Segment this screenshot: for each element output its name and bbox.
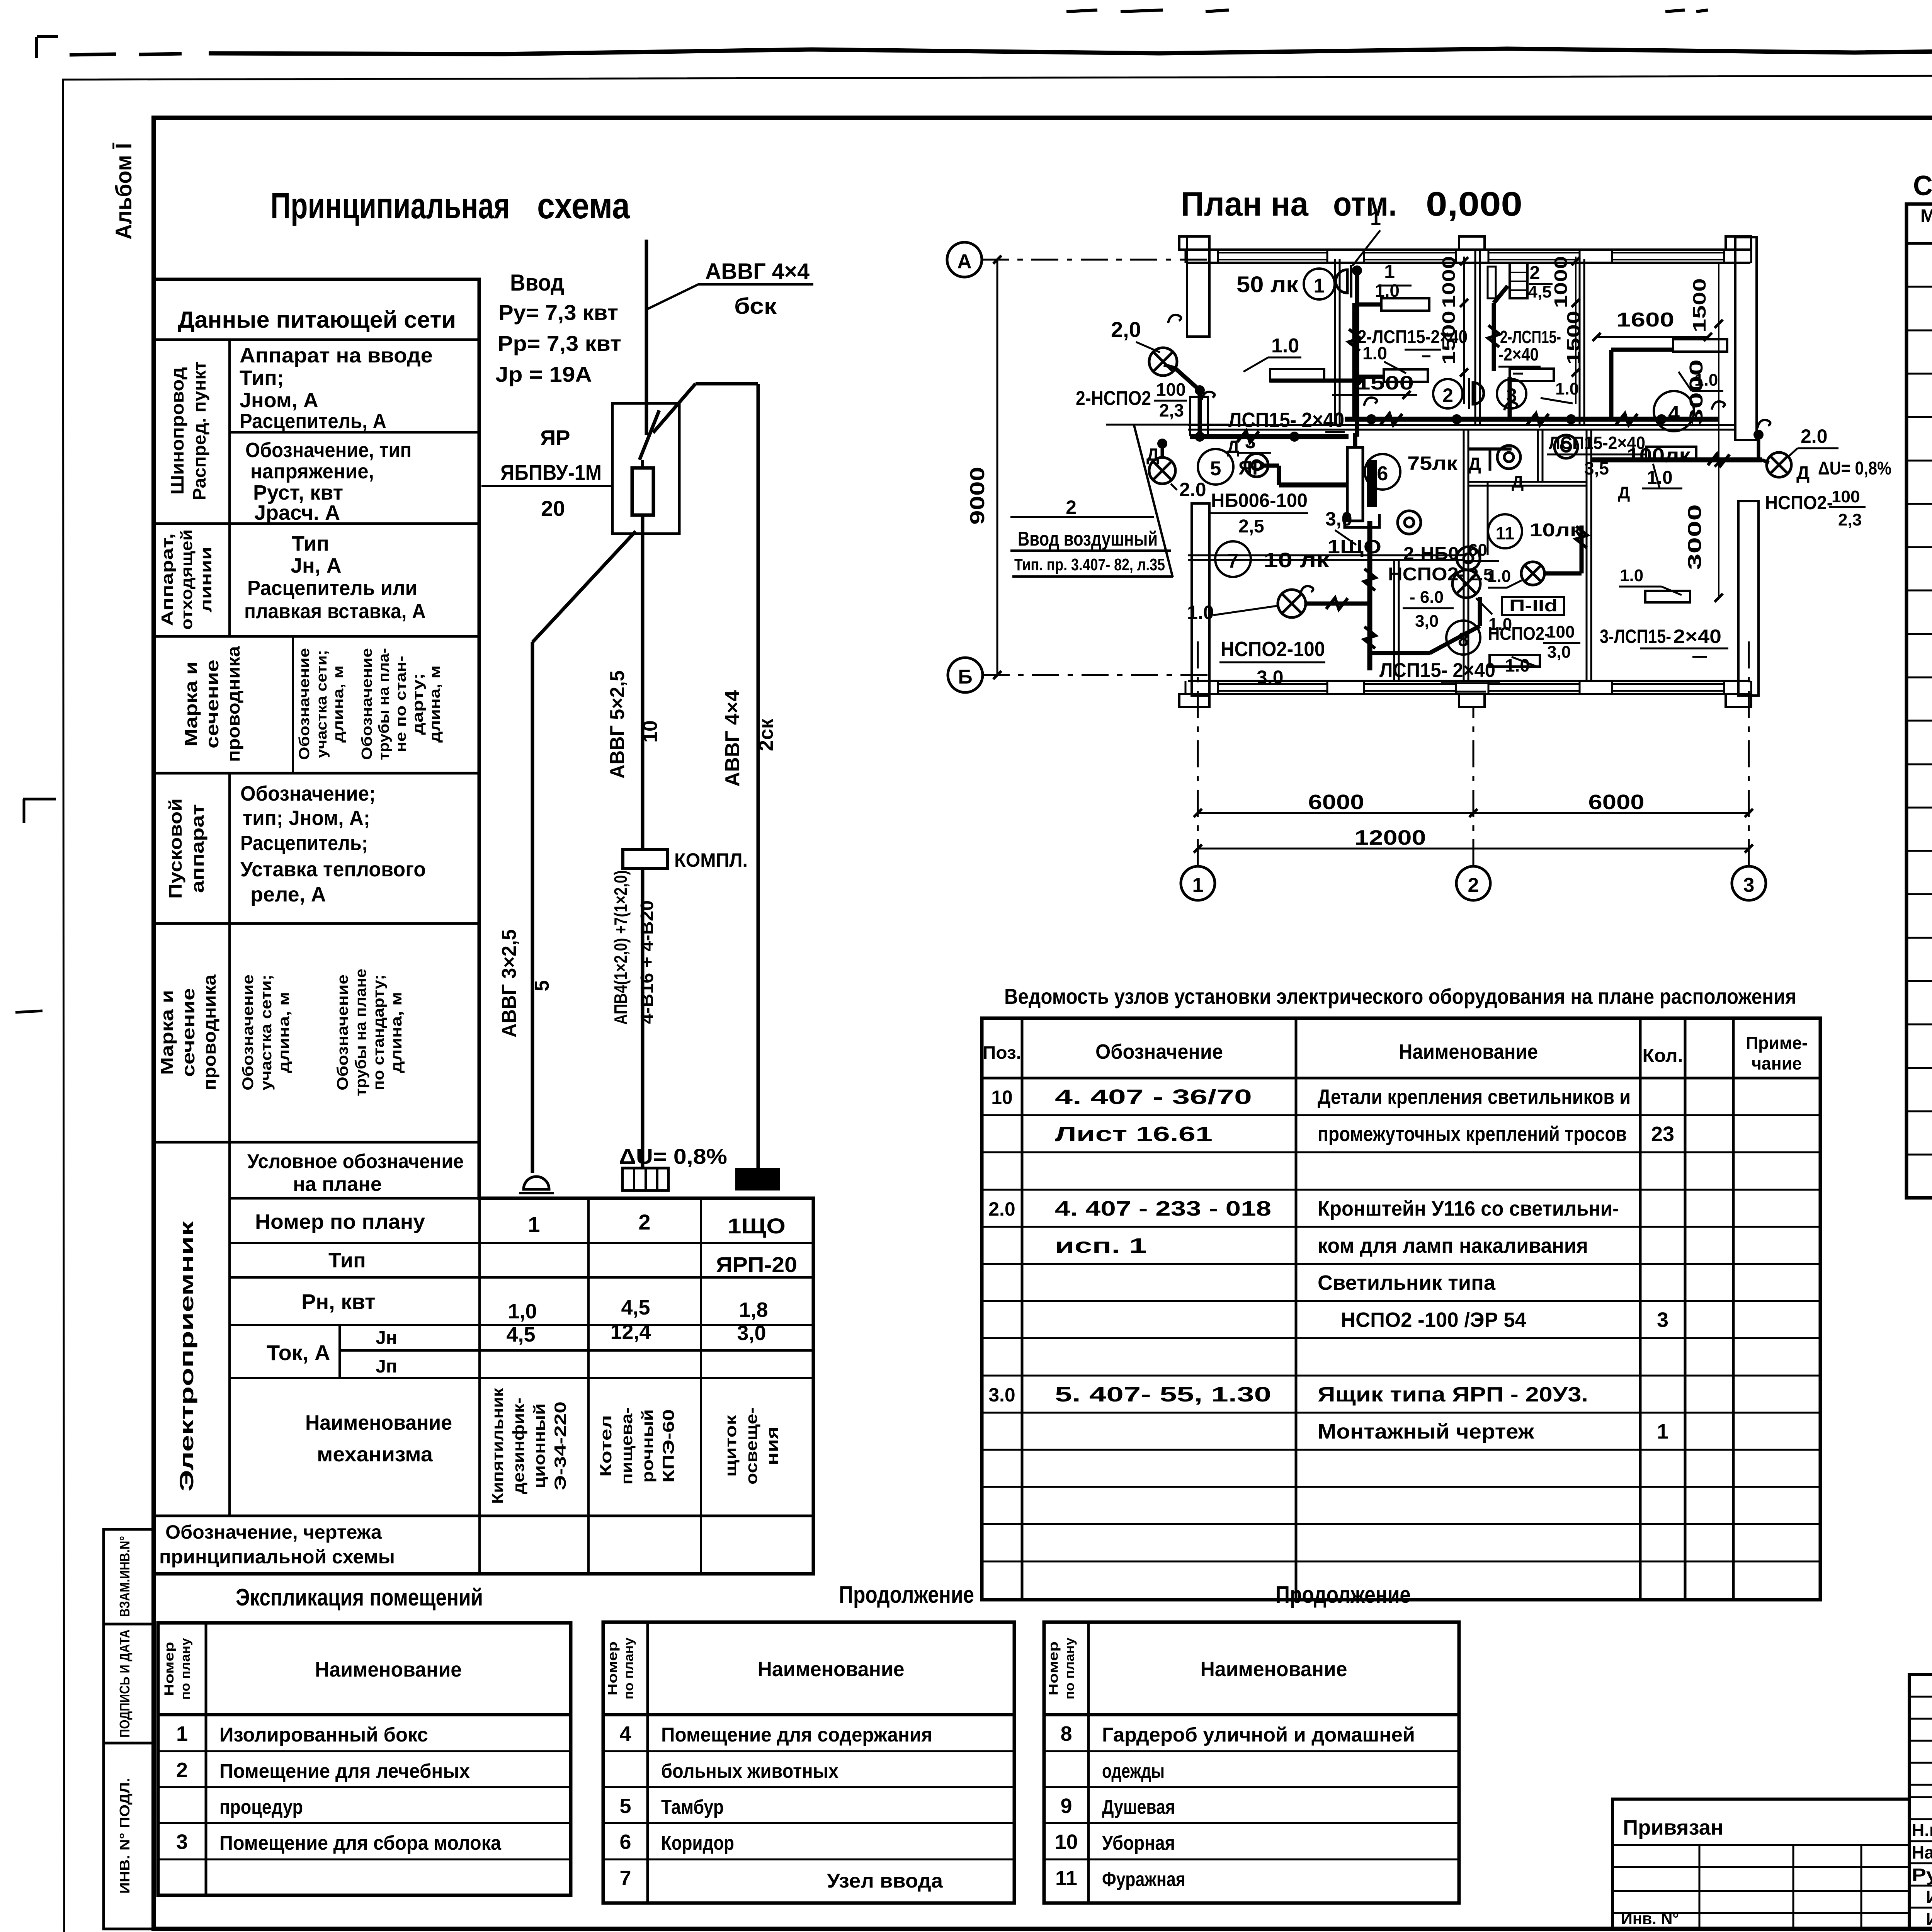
svg-text:Ток, А: Ток, А [267, 1340, 330, 1365]
svg-text:4-В16 + 4-В20: 4-В16 + 4-В20 [637, 900, 657, 1024]
svg-text:20: 20 [541, 496, 565, 520]
svg-text:АВВГ 3×2,5: АВВГ 3×2,5 [498, 929, 520, 1037]
svg-text:Рн, квт: Рн, квт [301, 1289, 375, 1314]
svg-text:Приме-: Приме- [1746, 1033, 1808, 1053]
svg-text:АПВ4(1×2,0) +7(1×2,0): АПВ4(1×2,0) +7(1×2,0) [611, 870, 631, 1025]
svg-text:1500: 1500 [1439, 311, 1459, 365]
svg-text:1ЩО: 1ЩО [728, 1214, 786, 1238]
svg-text:6000: 6000 [1588, 791, 1645, 814]
svg-text:сечение: сечение [202, 660, 222, 748]
svg-text:Наименование: Наименование [1399, 1040, 1538, 1063]
svg-text:НСПО2-: НСПО2- [1765, 492, 1833, 514]
svg-text:2,3: 2,3 [1838, 510, 1862, 529]
svg-text:2.0: 2.0 [988, 1198, 1015, 1220]
svg-text:1.0: 1.0 [1647, 468, 1673, 488]
svg-text:Руст, квт: Руст, квт [253, 481, 343, 504]
svg-text:10 лк: 10 лк [1264, 549, 1330, 572]
svg-text:Јрасч. А: Јрасч. А [254, 501, 340, 524]
svg-text:реле, А: реле, А [250, 883, 326, 906]
svg-text:линии: линии [197, 547, 215, 612]
svg-text:больных животных: больных животных [661, 1760, 838, 1782]
svg-text:6: 6 [1377, 463, 1388, 485]
svg-text:100: 100 [1546, 622, 1575, 641]
svg-text:1000: 1000 [1551, 256, 1571, 308]
svg-text:Спецификация на силовое эле: Спецификация на силовое электрооборудова… [1913, 170, 1932, 201]
svg-text:Уборная: Уборная [1102, 1832, 1175, 1854]
svg-text:1500: 1500 [1563, 311, 1583, 365]
svg-text:Аппарат,: Аппарат, [158, 533, 176, 626]
svg-text:12000: 12000 [1355, 826, 1426, 849]
svg-text:Номер по плану: Номер по плану [255, 1210, 425, 1233]
svg-text:тип; Јном, А;: тип; Јном, А; [243, 806, 370, 830]
svg-text:Номер: Номер [1046, 1641, 1061, 1696]
svg-text:участка сети;: участка сети; [258, 975, 275, 1090]
svg-text:Электроприемник: Электроприемник [176, 1220, 197, 1492]
svg-text:Наименование: Наименование [315, 1658, 462, 1681]
svg-text:Расцепитель;: Расцепитель; [240, 832, 368, 855]
svg-text:не по стан-: не по стан- [393, 656, 409, 752]
svg-text:Продолжение: Продолжение [839, 1582, 974, 1608]
svg-text:2: 2 [176, 1759, 188, 1782]
svg-text:3: 3 [1245, 431, 1256, 452]
svg-text:Јп: Јп [376, 1356, 397, 1377]
svg-text:3: 3 [176, 1830, 188, 1854]
svg-text:5: 5 [619, 1794, 631, 1818]
svg-text:ЛСП15- 2×40: ЛСП15- 2×40 [1228, 408, 1344, 432]
svg-text:Наименование: Наименование [758, 1658, 905, 1681]
svg-text:1: 1 [1192, 874, 1204, 896]
svg-text:АВВГ 4×4: АВВГ 4×4 [705, 259, 810, 284]
svg-text:Узел ввода: Узел ввода [827, 1870, 943, 1892]
svg-text:Светильник типа: Светильник типа [1318, 1271, 1496, 1294]
svg-text:Марка и: Марка и [181, 662, 201, 747]
svg-text:23: 23 [1651, 1122, 1674, 1146]
svg-text:Уставка теплового: Уставка теплового [240, 858, 426, 881]
svg-text:ЯРП-20: ЯРП-20 [716, 1252, 797, 1277]
svg-text:Пусковой: Пусковой [165, 798, 185, 899]
svg-text:2: 2 [1530, 263, 1540, 283]
svg-text:8: 8 [1458, 629, 1469, 650]
svg-text:Ящик типа ЯРП - 20У3.: Ящик типа ЯРП - 20У3. [1318, 1383, 1588, 1406]
svg-text:Н.контр.: Н.контр. [1912, 1820, 1932, 1840]
svg-text:длина, м: длина, м [276, 992, 293, 1073]
svg-text:Инж.: Инж. [1926, 1909, 1932, 1929]
svg-text:2.0: 2.0 [1801, 425, 1828, 447]
svg-text:2,3: 2,3 [1159, 400, 1184, 420]
svg-text:Котел: Котел [597, 1415, 615, 1477]
svg-text:1: 1 [1370, 207, 1381, 229]
svg-text:Экспликация помещений: Экспликация помещений [236, 1584, 483, 1611]
svg-text:4. 407 - 36/70: 4. 407 - 36/70 [1055, 1085, 1252, 1109]
svg-text:по плану: по плану [178, 1638, 193, 1700]
svg-text:1: 1 [176, 1722, 188, 1745]
svg-text:2ск: 2ск [755, 718, 777, 751]
svg-text:ния: ния [763, 1427, 781, 1465]
svg-text:Инж.: Инж. [1926, 1887, 1932, 1907]
svg-text:Расцепитель или: Расцепитель или [247, 577, 417, 600]
svg-text:Марка и: Марка и [157, 990, 177, 1075]
svg-text:НСПО2-100: НСПО2-100 [1221, 638, 1325, 661]
svg-text:НСПО2-: НСПО2- [1488, 624, 1550, 644]
svg-text:ком для ламп накаливания: ком для ламп накаливания [1318, 1234, 1588, 1257]
svg-text:5. 407- 55, 1.30: 5. 407- 55, 1.30 [1055, 1383, 1271, 1406]
svg-text:Расцепитель, А: Расцепитель, А [240, 410, 386, 433]
svg-text:1.0: 1.0 [1375, 281, 1400, 301]
svg-text:Тип. пр. 3.407- 82, л.35: Тип. пр. 3.407- 82, л.35 [1014, 555, 1165, 574]
svg-text:1ЩО: 1ЩО [1327, 536, 1381, 558]
svg-text:План на: План на [1181, 185, 1309, 223]
svg-text:длина, м: длина, м [427, 665, 443, 743]
svg-text:1,8: 1,8 [739, 1298, 768, 1321]
svg-text:4: 4 [619, 1722, 631, 1745]
svg-text:Д: Д [1796, 463, 1810, 483]
svg-text:АВВГ 4×4: АВВГ 4×4 [721, 690, 744, 787]
svg-text:Ввод воздушный: Ввод воздушный [1018, 528, 1158, 550]
svg-text:Э-34-220: Э-34-220 [551, 1401, 569, 1490]
svg-text:Јр = 19А: Јр = 19А [495, 362, 592, 386]
svg-text:4: 4 [1668, 402, 1680, 425]
svg-text:3: 3 [1743, 874, 1755, 896]
svg-text:Душевая: Душевая [1102, 1796, 1175, 1818]
svg-text:Тамбур: Тамбур [661, 1796, 724, 1818]
svg-text:1.0: 1.0 [1271, 335, 1299, 357]
svg-text:3: 3 [1506, 384, 1517, 406]
svg-text:Д: Д [1512, 473, 1524, 492]
svg-text:проводника: проводника [223, 646, 243, 762]
svg-text:3,0: 3,0 [1325, 508, 1352, 530]
svg-text:11: 11 [1496, 523, 1515, 543]
svg-text:1.0: 1.0 [1487, 567, 1511, 586]
svg-text:А: А [957, 250, 972, 273]
svg-text:Гардероб уличной и домашней: Гардероб уличной и домашней [1102, 1724, 1415, 1746]
svg-text:1.0: 1.0 [1694, 371, 1718, 389]
svg-text:КОМПЛ.: КОМПЛ. [674, 849, 748, 871]
svg-text:отм.: отм. [1333, 185, 1397, 223]
svg-text:длина, м: длина, м [388, 992, 405, 1073]
svg-text:10лк: 10лк [1529, 520, 1582, 541]
svg-text:Јном, А: Јном, А [240, 389, 318, 412]
svg-text:Помещение для лечебных: Помещение для лечебных [219, 1760, 470, 1782]
svg-text:промежуточных креплений тро: промежуточных креплений тросов [1318, 1122, 1627, 1146]
svg-text:Кол.: Кол. [1643, 1046, 1683, 1066]
svg-text:9: 9 [1060, 1794, 1072, 1818]
svg-text:Распред. пункт: Распред. пункт [189, 361, 209, 500]
svg-text:6: 6 [619, 1830, 631, 1854]
svg-text:60: 60 [1468, 541, 1487, 560]
svg-text:Инв. N°: Инв. N° [1621, 1909, 1679, 1928]
svg-text:ПОДПИСЬ И ДАТА: ПОДПИСЬ И ДАТА [117, 1629, 133, 1738]
svg-text:Обозначение: Обозначение [359, 648, 375, 760]
svg-text:Д: Д [1227, 437, 1240, 457]
svg-text:Д: Д [1468, 454, 1481, 474]
svg-text:Данные питающей сети: Данные питающей сети [178, 307, 456, 333]
svg-text:ΔU= 0,8%: ΔU= 0,8% [619, 1144, 727, 1168]
svg-text:чание: чание [1752, 1053, 1802, 1073]
svg-text:5: 5 [531, 980, 553, 992]
svg-text:ЯБПВУ-1М: ЯБПВУ-1М [500, 460, 602, 485]
svg-text:бск: бск [734, 294, 777, 319]
svg-text:Альбом Ī: Альбом Ī [111, 143, 136, 240]
svg-text:3000: 3000 [1685, 504, 1705, 570]
svg-text:1000: 1000 [1439, 256, 1459, 308]
svg-text:0,000: 0,000 [1426, 185, 1522, 223]
svg-text:Тип;: Тип; [240, 366, 284, 389]
svg-text:принципиальной схемы: принципиальной схемы [159, 1546, 395, 1568]
svg-text:исп. 1: исп. 1 [1055, 1234, 1147, 1257]
svg-text:10: 10 [991, 1087, 1013, 1108]
svg-text:- 6.0: - 6.0 [1410, 588, 1444, 607]
svg-text:2-НСПО2: 2-НСПО2 [1076, 387, 1151, 410]
svg-text:Продолжение: Продолжение [1276, 1582, 1411, 1608]
svg-text:схема: схема [537, 185, 630, 226]
svg-text:Тип: Тип [328, 1249, 366, 1272]
svg-text:Обозначение: Обозначение [240, 975, 257, 1090]
svg-text:Аппарат на вводе: Аппарат на вводе [240, 344, 433, 367]
svg-text:по плану: по плану [1063, 1638, 1077, 1699]
svg-text:сечение: сечение [178, 988, 198, 1077]
svg-text:ЛСП15- 2×40: ЛСП15- 2×40 [1379, 659, 1495, 682]
svg-text:Обозначение: Обозначение [296, 648, 313, 760]
svg-text:2-НБ0-: 2-НБ0- [1403, 543, 1465, 563]
svg-text:Лист 16.61: Лист 16.61 [1055, 1122, 1213, 1146]
svg-text:Поз.: Поз. [983, 1043, 1021, 1063]
svg-text:Изолированный бокс: Изолированный бокс [219, 1724, 428, 1746]
svg-text:10: 10 [1054, 1830, 1078, 1854]
svg-text:на плане: на плане [293, 1173, 382, 1196]
svg-text:Б: Б [958, 666, 972, 688]
svg-text:7: 7 [1228, 550, 1239, 572]
svg-text:щиток: щиток [721, 1415, 740, 1477]
svg-text:7: 7 [619, 1867, 631, 1890]
svg-text:1500: 1500 [1689, 278, 1709, 332]
svg-text:трубы на пла-: трубы на пла- [376, 648, 392, 760]
svg-text:пищева-: пищева- [617, 1407, 636, 1485]
svg-text:Тип: Тип [292, 532, 329, 555]
svg-text:Наименование: Наименование [1201, 1658, 1347, 1681]
svg-text:напряжение,: напряжение, [250, 460, 374, 483]
svg-text:Принципиальная: Принципиальная [270, 185, 510, 226]
svg-text:Номер: Номер [162, 1642, 177, 1696]
svg-text:100: 100 [1832, 487, 1860, 506]
svg-text:12,4: 12,4 [610, 1320, 651, 1344]
svg-text:2.0: 2.0 [1179, 479, 1206, 500]
svg-text:Јн, А: Јн, А [291, 554, 342, 577]
svg-text:6000: 6000 [1308, 791, 1364, 814]
svg-text:рочный: рочный [638, 1409, 656, 1483]
svg-text:П-ІІd: П-ІІd [1509, 596, 1558, 615]
svg-text:ИНВ. N° ПОДЛ.: ИНВ. N° ПОДЛ. [117, 1778, 133, 1894]
svg-text:процедур: процедур [219, 1796, 303, 1818]
svg-text:Д: Д [1618, 483, 1630, 502]
svg-text:Помещение для сбора молока: Помещение для сбора молока [219, 1832, 502, 1854]
svg-text:плавкая вставка, А: плавкая вставка, А [244, 600, 426, 623]
svg-text:Обозначение: Обозначение [334, 975, 351, 1090]
svg-text:Условное обозначение: Условное обозначение [247, 1150, 464, 1173]
svg-text:4. 407 - 233 - 018: 4. 407 - 233 - 018 [1055, 1197, 1271, 1220]
svg-text:отходящей: отходящей [177, 529, 196, 630]
svg-text:3: 3 [1657, 1308, 1668, 1332]
svg-text:одежды: одежды [1102, 1760, 1165, 1782]
svg-text:Фуражная: Фуражная [1102, 1868, 1185, 1891]
svg-text:Шинопровод: Шинопровод [167, 367, 187, 495]
svg-text:100: 100 [1156, 379, 1186, 400]
svg-text:4,5: 4,5 [506, 1323, 535, 1346]
svg-text:Обозначение, чертежа: Обозначение, чертежа [165, 1521, 382, 1543]
svg-text:1500: 1500 [1356, 372, 1414, 394]
svg-text:Привязан: Привязан [1623, 1815, 1723, 1839]
svg-text:8: 8 [1060, 1722, 1072, 1745]
svg-text:Марка,: Марка, [1920, 206, 1932, 226]
svg-text:дарту;: дарту; [410, 673, 426, 735]
svg-text:3.0: 3.0 [988, 1384, 1015, 1406]
svg-text:освеще-: освеще- [742, 1407, 760, 1485]
svg-text:Рук.гр.: Рук.гр. [1912, 1865, 1932, 1885]
svg-text:проводника: проводника [199, 975, 219, 1090]
svg-text:Кипятильник: Кипятильник [488, 1388, 507, 1504]
svg-text:длина, м: длина, м [330, 665, 347, 743]
svg-text:Ведомость узлов установки э: Ведомость узлов установки электрического… [1004, 984, 1796, 1009]
svg-text:Номер: Номер [605, 1641, 620, 1696]
svg-text:участка сети;: участка сети; [314, 650, 330, 758]
svg-text:75лк: 75лк [1407, 452, 1458, 474]
svg-text:НСПО2-: НСПО2- [1388, 564, 1465, 585]
svg-text:АВВГ 5×2,5: АВВГ 5×2,5 [606, 670, 629, 779]
svg-text:НБ006-100: НБ006-100 [1211, 490, 1308, 511]
svg-text:3-ЛСП15-: 3-ЛСП15- [1600, 626, 1671, 647]
svg-text:2: 2 [638, 1210, 650, 1234]
svg-text:по плану: по плану [622, 1638, 636, 1699]
svg-text:Обозначение: Обозначение [1095, 1040, 1223, 1063]
svg-text:1: 1 [1657, 1420, 1668, 1443]
svg-text:аппарат: аппарат [187, 804, 207, 893]
svg-text:1: 1 [1314, 275, 1325, 297]
svg-text:Помещение для содержания: Помещение для содержания [661, 1724, 932, 1746]
svg-text:1600: 1600 [1616, 309, 1674, 331]
svg-text:1.0: 1.0 [1620, 566, 1643, 585]
svg-text:50 лк: 50 лк [1236, 272, 1299, 297]
svg-text:Монтажный чертеж: Монтажный чертеж [1318, 1420, 1534, 1443]
svg-text:10: 10 [639, 720, 662, 743]
svg-text:11: 11 [1055, 1867, 1077, 1890]
svg-text:3,5: 3,5 [1584, 458, 1609, 478]
svg-text:по стандарту;: по стандарту; [370, 975, 387, 1090]
svg-text:3,0: 3,0 [1415, 612, 1439, 631]
svg-text:Кронштейн У116 со светильни: Кронштейн У116 со светильни- [1318, 1197, 1619, 1220]
svg-text:2: 2 [1442, 384, 1453, 406]
svg-text:2: 2 [1066, 497, 1077, 518]
svg-text:Детали крепления светильнико: Детали крепления светильников и [1318, 1085, 1631, 1109]
svg-text:КПЭ-60: КПЭ-60 [659, 1409, 677, 1483]
svg-text:3,0: 3,0 [737, 1321, 766, 1345]
svg-text:ЯР: ЯР [540, 425, 570, 450]
svg-text:5: 5 [1210, 457, 1221, 480]
svg-text:ЛСП15-2×40: ЛСП15-2×40 [1549, 433, 1645, 453]
svg-text:Коридор: Коридор [661, 1832, 734, 1854]
svg-text:Јн: Јн [376, 1328, 397, 1348]
svg-text:4,5: 4,5 [1528, 282, 1551, 301]
svg-text:9000: 9000 [966, 467, 989, 525]
svg-text:2: 2 [1468, 874, 1479, 896]
svg-text:Обозначение, тип: Обозначение, тип [245, 439, 412, 462]
svg-text:механизма: механизма [317, 1443, 433, 1466]
svg-text:Ру= 7,3 квт: Ру= 7,3 квт [498, 300, 618, 325]
svg-text:Обозначение;: Обозначение; [240, 782, 376, 805]
svg-text:1: 1 [528, 1212, 540, 1236]
svg-text:трубы на плане: трубы на плане [352, 969, 369, 1096]
svg-text:1.0: 1.0 [1362, 343, 1387, 363]
svg-text:1.0: 1.0 [1187, 602, 1214, 623]
svg-text:3.0: 3.0 [1257, 667, 1284, 688]
svg-text:Д: Д [1146, 444, 1159, 464]
svg-text:1,0: 1,0 [508, 1300, 537, 1323]
svg-text:дезинфик-: дезинфик- [509, 1398, 527, 1494]
svg-text:ВЗАМ.ИНВ.N°: ВЗАМ.ИНВ.N° [117, 1536, 133, 1617]
svg-text:3,0: 3,0 [1547, 643, 1571, 662]
svg-text:4,5: 4,5 [621, 1296, 650, 1319]
svg-text:НСПО2 -100 /ЭР 54: НСПО2 -100 /ЭР 54 [1341, 1308, 1526, 1332]
svg-text:2×40: 2×40 [1673, 626, 1721, 647]
svg-text:ΔU= 0,8%: ΔU= 0,8% [1818, 458, 1891, 479]
svg-text:ционный: ционный [530, 1403, 548, 1488]
svg-text:-2×40: -2×40 [1498, 344, 1539, 364]
svg-text:1: 1 [1384, 261, 1395, 282]
svg-text:Наименование: Наименование [305, 1411, 452, 1434]
svg-text:2,0: 2,0 [1111, 317, 1141, 342]
svg-text:Рр= 7,3 квт: Рр= 7,3 квт [498, 331, 621, 355]
svg-text:Ввод: Ввод [510, 270, 564, 296]
svg-text:Нач.отд.: Нач.отд. [1912, 1842, 1932, 1862]
svg-text:2,5: 2,5 [1238, 516, 1264, 537]
svg-text:ЯР: ЯР [1238, 457, 1265, 479]
svg-text:3000: 3000 [1686, 359, 1707, 425]
